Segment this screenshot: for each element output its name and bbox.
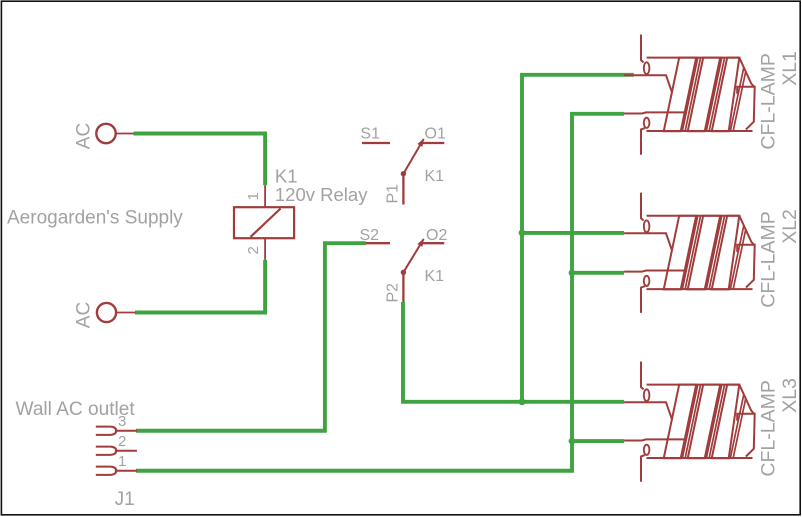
svg-text:XL2: XL2 <box>779 209 801 244</box>
wire upper bus branch to XL2 <box>522 231 624 235</box>
wire J1 pin 1 to lower bus <box>136 114 624 471</box>
junction dot lower bus at XL3 branch <box>569 438 576 445</box>
switch contact S2 <box>360 227 391 244</box>
switch contact S1 <box>360 125 390 143</box>
svg-text:K1: K1 <box>275 165 298 186</box>
svg-text:J1: J1 <box>115 489 135 510</box>
svg-text:AC: AC <box>74 123 95 149</box>
wire upper bus vertical <box>522 75 634 402</box>
svg-text:1: 1 <box>118 453 126 470</box>
svg-text:Wall AC outlet: Wall AC outlet <box>16 399 136 420</box>
junction dot upper bus at XL2 branch <box>519 230 526 237</box>
svg-text:O1: O1 <box>425 125 446 142</box>
svg-text:P1: P1 <box>385 184 402 204</box>
lamp XL3 <box>624 362 801 482</box>
wire P2 to lamps upper bus <box>403 302 624 402</box>
svg-text:1: 1 <box>245 192 262 200</box>
wire lower bus branch to XL2 <box>572 271 624 275</box>
svg-text:K1: K1 <box>425 268 445 285</box>
svg-text:O2: O2 <box>426 227 447 244</box>
svg-text:CFL-LAMP: CFL-LAMP <box>758 53 780 149</box>
lamp XL1 <box>624 35 801 155</box>
wire lower bus branch to XL3 <box>572 439 624 443</box>
wire S2 to J1 pin 3 <box>136 243 366 431</box>
relay coil K1 <box>234 165 368 260</box>
svg-text:120v Relay: 120v Relay <box>275 184 368 205</box>
svg-text:2: 2 <box>118 433 126 450</box>
junction dot lower bus at XL2 branch <box>569 269 576 276</box>
svg-text:Aerogarden's Supply: Aerogarden's Supply <box>7 208 183 229</box>
switch contact O1 <box>422 125 446 143</box>
switch pole P1 of K1 <box>385 139 445 205</box>
connector J1 <box>96 413 137 510</box>
svg-text:2: 2 <box>245 246 262 254</box>
svg-text:CFL-LAMP: CFL-LAMP <box>758 380 780 476</box>
terminal AC1 <box>74 123 135 149</box>
svg-text:XL3: XL3 <box>779 378 801 413</box>
switch pole P2 of K1 <box>385 239 445 303</box>
switch contact O2 <box>422 227 447 244</box>
svg-text:K1: K1 <box>425 168 445 185</box>
svg-text:CFL-LAMP: CFL-LAMP <box>758 211 780 307</box>
junction dot P2 wire at upper bus <box>519 398 526 405</box>
svg-text:AC: AC <box>74 302 95 328</box>
terminal AC2 <box>74 302 136 328</box>
wire relay pin 2 to AC2 <box>135 260 265 313</box>
wire AC1 to relay pin 1 <box>134 134 266 186</box>
svg-text:XL1: XL1 <box>779 51 801 86</box>
svg-text:P2: P2 <box>385 283 402 303</box>
svg-text:S1: S1 <box>360 125 380 142</box>
lamp XL2 <box>624 193 801 313</box>
